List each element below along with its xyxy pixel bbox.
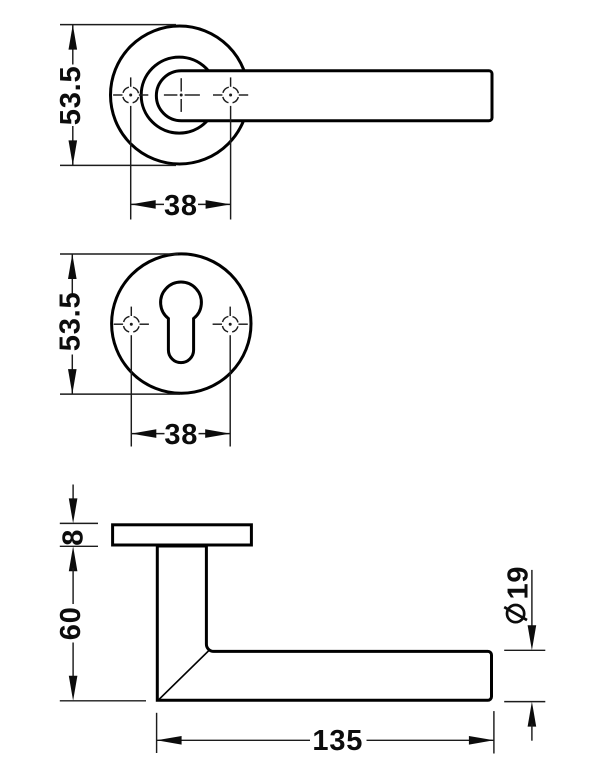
- escutcheon circle (middle view): [112, 254, 251, 393]
- extension line left hole down (top view): [130, 106, 132, 220]
- svg-text:53.5: 53.5: [55, 292, 87, 352]
- svg-text:38: 38: [164, 419, 198, 451]
- extension line left hole down (middle view): [130, 335, 132, 446]
- dimension 8 (bottom view): [58, 485, 99, 547]
- rosette side profile (bottom view): [113, 525, 252, 545]
- miter edge line (bottom view): [158, 651, 208, 700]
- lever side profile (bottom view): [157, 546, 491, 700]
- svg-text:19: 19: [503, 566, 535, 600]
- dimension 38 (top view): [131, 190, 231, 222]
- extension line right hole down (middle view): [229, 335, 231, 446]
- screw hole left (top view): [113, 77, 148, 103]
- screw hole right (top view): [213, 77, 248, 103]
- dimension D19 (bottom view): [503, 566, 546, 741]
- svg-text:38: 38: [164, 190, 198, 222]
- svg-text:60: 60: [55, 606, 87, 640]
- dimension 60 (bottom view): [55, 546, 146, 701]
- svg-text:8: 8: [58, 529, 90, 546]
- dimension 38 (middle view): [131, 419, 230, 451]
- dimension 53.5 (middle view): [55, 254, 180, 394]
- dimension 135 (bottom view): [157, 711, 494, 757]
- rosette outer circle (top view): [111, 26, 249, 164]
- euro profile keyhole: [161, 282, 202, 363]
- lever handle (top view): [156, 71, 492, 121]
- rosette collar circle (top view): [141, 57, 217, 133]
- svg-text:53.5: 53.5: [55, 66, 87, 126]
- svg-text:135: 135: [312, 725, 363, 757]
- extension line right hole down (top view): [230, 106, 232, 220]
- dimension 53.5 (top view): [55, 25, 176, 166]
- screw hole right (middle view): [213, 307, 248, 333]
- screw hole left (middle view): [114, 307, 149, 333]
- center mark (top view): [164, 78, 200, 112]
